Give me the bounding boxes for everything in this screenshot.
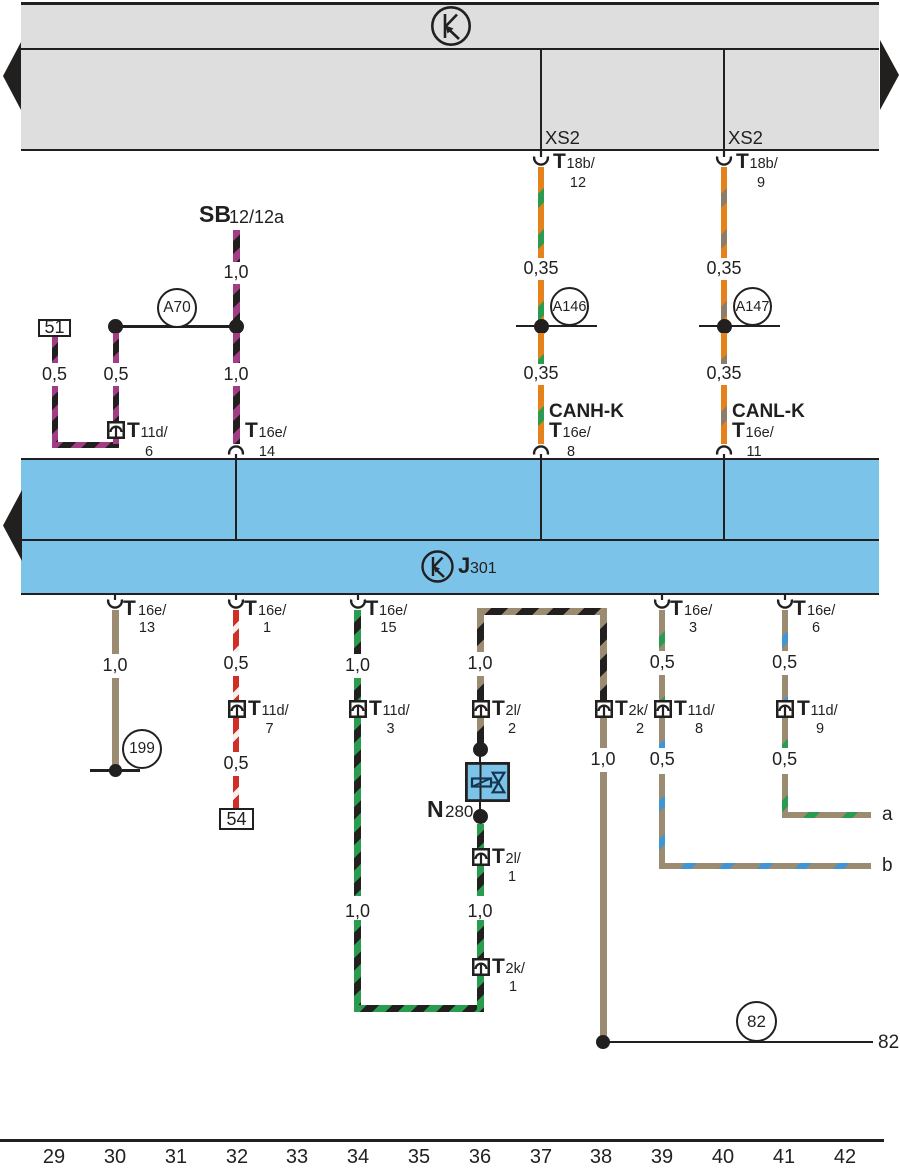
track number 35 [408, 1147, 430, 1167]
wire ro/ws segment 3 [233, 718, 239, 752]
bus bar bottom border line [21, 149, 879, 152]
wire br/bl horizontal run b [659, 863, 871, 869]
valve N280 body [465, 762, 510, 802]
wire br/sw left leg segment 2 [477, 676, 484, 700]
inline connector T2k/2 [595, 700, 613, 718]
J301 band internal separator line [21, 539, 879, 541]
wire br/bl segment 4 vertical [659, 774, 665, 869]
connection circle A70 [157, 288, 197, 328]
J301 band bottom border line [21, 593, 879, 596]
J301 internal pin line track 37 [540, 460, 542, 539]
junction dot 82 [596, 1035, 610, 1049]
wire size label 0,5 (track 39 lower) [647, 750, 678, 768]
label T18b/9 [736, 151, 749, 172]
wire br segment long (track 38) [600, 772, 607, 1036]
track number 36 [469, 1147, 491, 1167]
connector symbol T16e/3 at J301 bottom [652, 594, 672, 611]
wire size label 0,5 (T11d/6 branch) [100, 365, 131, 383]
label XS2 (track 40) [728, 129, 763, 147]
fuse label SB12/12a [199, 203, 231, 226]
bus bar top border line [21, 2, 879, 5]
ground junction dot [109, 764, 122, 777]
label T2k/1 [492, 956, 505, 977]
wire CANL or/br segment 1 (track 40) [721, 167, 727, 258]
wire size label 1,0 (track 36 lower) [464, 902, 495, 920]
label N280 [427, 798, 444, 821]
track number 42 [834, 1147, 856, 1167]
label T16e/3 [670, 598, 683, 619]
pin wire into N280 [479, 754, 482, 764]
track number 29 [43, 1147, 65, 1167]
connector symbol T16e/1 at J301 bottom [226, 594, 246, 611]
wire size label 1,0 (track 38) [587, 750, 618, 768]
wire gn/sw segment above T2k/1 [477, 920, 484, 958]
wire li/sw segment into T11d/6 [113, 386, 119, 422]
wire br/bl segment 3 (track 39) [659, 718, 665, 749]
circled-K terminal symbol U1 (top band) [430, 5, 472, 47]
wire ro/ws segment 2 [233, 676, 239, 700]
label CANL-K [732, 402, 805, 421]
label T11d/8 [674, 698, 687, 719]
bus arrow right (top band) [879, 38, 900, 112]
J301 internal pin line track 32 [235, 460, 237, 539]
wire size label 0,5 (track 32 lower) [220, 754, 251, 772]
wire gn/sw segment below T2l/1 [477, 866, 484, 896]
bus bar band (plus rail) top [21, 2, 879, 151]
connector symbol T16e/15 at J301 bottom [348, 594, 368, 611]
track number 32 [226, 1147, 248, 1167]
wire br/gn segment 4 vertical [782, 774, 788, 818]
label T18b/12 [553, 151, 566, 172]
wire li/sw segment 4 [233, 386, 240, 444]
wire br segment below T2k/2 [600, 718, 607, 749]
label 82 right [878, 1033, 899, 1052]
bus bar internal separator line [21, 48, 879, 50]
track number 38 [590, 1147, 612, 1167]
connector symbol T16e/13 at J301 bottom [105, 594, 125, 611]
connector symbol T16e/8 at J301 top [531, 443, 551, 460]
label T2l/1 [492, 846, 505, 867]
wire size label 0,5 (51 branch) [39, 365, 70, 383]
inline connector T11d/3 [349, 700, 367, 718]
wire br/bl segment 2 [782, 675, 788, 700]
wire size label 1,0 (SB lower) [220, 365, 251, 383]
wire size label 0,35 (CANL lower) [703, 364, 744, 382]
track number 33 [286, 1147, 308, 1167]
wire CANL or/br segment 3 [721, 333, 727, 364]
track number 41 [773, 1147, 795, 1167]
pin wire out of N280 [479, 802, 482, 811]
connector symbol T18b/12 at band [531, 151, 551, 168]
wire br/gn segment 2 [659, 675, 665, 700]
bus arrow left (J301 band) [2, 489, 23, 562]
wire ro/ws segment 4 [233, 776, 239, 808]
track number 37 [530, 1147, 552, 1167]
wire size label 0,5 (track 41 upper) [769, 653, 800, 671]
bottom rail line [0, 1139, 884, 1142]
track number 31 [165, 1147, 187, 1167]
inline connector T11d/6 [107, 421, 125, 439]
label T16e/1 [244, 598, 257, 619]
wire size label 0,35 (CANH upper) [520, 259, 561, 277]
wire br/gn segment 3 (track 41) [782, 718, 788, 749]
track number 30 [104, 1147, 126, 1167]
wire br/bl (track 41) segment 1 [782, 610, 788, 651]
junction dot N280 bottom pin [473, 809, 488, 824]
wire size label 1,0 (track 30) [99, 656, 130, 674]
inline connector T11d/9 [776, 700, 794, 718]
wire size label 0,35 (CANL upper) [703, 259, 744, 277]
wire br/sw left leg segment 1 (track 36) [477, 615, 484, 653]
wire br/gn horizontal run a [782, 812, 871, 818]
track number 34 [347, 1147, 369, 1167]
wire gn/sw below N280 [477, 824, 484, 848]
ground line 199 [90, 769, 140, 772]
wire br/sw right leg (track 38) [600, 615, 607, 700]
circled-K symbol in J301 [421, 550, 454, 583]
wire ro/ws (track 32) segment 1 [233, 610, 239, 652]
label b [882, 856, 893, 875]
wire li/sw from SB segment 1 (track 32) [233, 230, 240, 262]
track number 39 [651, 1147, 673, 1167]
wire CANH or/gn segment 1 (track 37) [538, 167, 544, 258]
wire li/sw segment below A70 left dot [113, 333, 119, 363]
wire li/sw from 51 segment 2 vertical [52, 386, 58, 448]
wire gn/sw segment 4 [354, 920, 361, 1012]
wire size label 1,0 (track 36) [464, 654, 495, 672]
connection A147 horizontal line [699, 325, 780, 328]
junction dot N280 top pin [473, 742, 488, 757]
wire gn/sw (track 34) segment 1 [354, 610, 361, 654]
terminal box 54 [219, 808, 254, 830]
inline connector T2l/2 [472, 700, 490, 718]
wire size label 0,35 (CANH lower) [520, 364, 561, 382]
connection circle A146 [550, 287, 589, 326]
wire CANL or/br segment 2 [721, 280, 727, 320]
wire li/sw bottom horizontal run [52, 442, 120, 448]
ground circle 82 [736, 1001, 777, 1042]
junction dot at A70 right (track 32) [229, 319, 244, 334]
track number 40 [712, 1147, 734, 1167]
inline connector T11d/7 [228, 700, 246, 718]
connection A147 junction dot [717, 319, 732, 334]
ground line 82 [608, 1041, 873, 1044]
wire size label 1,0 (track 34 upper) [342, 656, 373, 674]
wire br/gn (track 39) segment 1 [659, 610, 665, 651]
wire stub in band track 40 [723, 49, 725, 150]
wire gn/sw segment 2 [354, 678, 361, 700]
connection A146 junction dot [534, 319, 549, 334]
label T16e/6 [793, 598, 806, 619]
wire CANH or/gn segment 4 [538, 385, 544, 444]
wire size label 0,5 (track 39 upper) [647, 653, 678, 671]
wire li/sw segment 2 [233, 284, 240, 320]
ground circle 199 [122, 729, 162, 769]
label T2l/2 [492, 698, 505, 719]
wire br/sw overhead bar (tracks 36-38) [477, 608, 607, 615]
label T11d/9 [797, 698, 810, 719]
inline connector T2l/1 [472, 848, 490, 866]
inline connector T2k/1 [472, 958, 490, 976]
control unit J301 band [21, 458, 879, 596]
bus arrow left (top band) [2, 40, 22, 112]
label J301 [458, 555, 470, 577]
wire br segment 2 [112, 678, 119, 765]
label T11d/7 [248, 698, 261, 719]
wire li/sw segment 3 (below junction) [233, 333, 240, 363]
label T16e/14 [245, 420, 258, 441]
label T16e/8 [549, 420, 562, 441]
connection A70 horizontal line [115, 325, 236, 328]
wire size label 0,5 (track 41 lower) [769, 750, 800, 768]
inline connector T11d/8 [654, 700, 672, 718]
wire CANH or/gn segment 3 [538, 333, 544, 364]
J301 internal pin line track 40 [723, 460, 725, 539]
wire gn/sw bottom horizontal run [354, 1005, 484, 1012]
label T2k/2 [615, 698, 628, 719]
wire size label 1,0 (SB upper) [220, 263, 251, 281]
label T11d/6 [127, 420, 140, 441]
connection circle A147 [733, 287, 772, 326]
label T16e/11 [732, 420, 745, 441]
label CANH-K [549, 402, 624, 421]
junction dot at A70 left (track 30) [108, 319, 123, 334]
connection A146 horizontal line [516, 325, 597, 328]
label a [882, 805, 893, 824]
wire gn/sw segment 3 (long) [354, 718, 361, 896]
wire li/sw from 51 segment 1 (track 29/30 left) [52, 337, 58, 363]
J301 band top border line [21, 458, 879, 461]
wire li/sw segment below T11d/6 [113, 438, 119, 444]
label T16e/13 [123, 598, 136, 619]
wire size label 0,5 (track 32 upper) [220, 654, 251, 672]
wire CANL or/br segment 4 [721, 385, 727, 444]
connector symbol T16e/11 at J301 top [714, 443, 734, 460]
wire size label 1,0 (track 34 lower) [342, 902, 373, 920]
label T11d/3 [369, 698, 382, 719]
connector symbol T16e/14 at J301 top [226, 443, 246, 460]
connector symbol T18b/9 at band [714, 151, 734, 168]
label T16e/15 [366, 598, 379, 619]
label XS2 (track 37) [545, 129, 580, 147]
terminal box 51 [38, 319, 71, 338]
wire gn/sw segment below T2k/1 [477, 976, 484, 1013]
wire stub in band track 37 [540, 49, 542, 150]
wire CANH or/gn segment 2 [538, 280, 544, 320]
wire br/sw segment below T2l/2 [477, 718, 484, 744]
connector symbol T16e/6 at J301 bottom [775, 594, 795, 611]
wire br (track 30) segment 1 [112, 610, 119, 654]
